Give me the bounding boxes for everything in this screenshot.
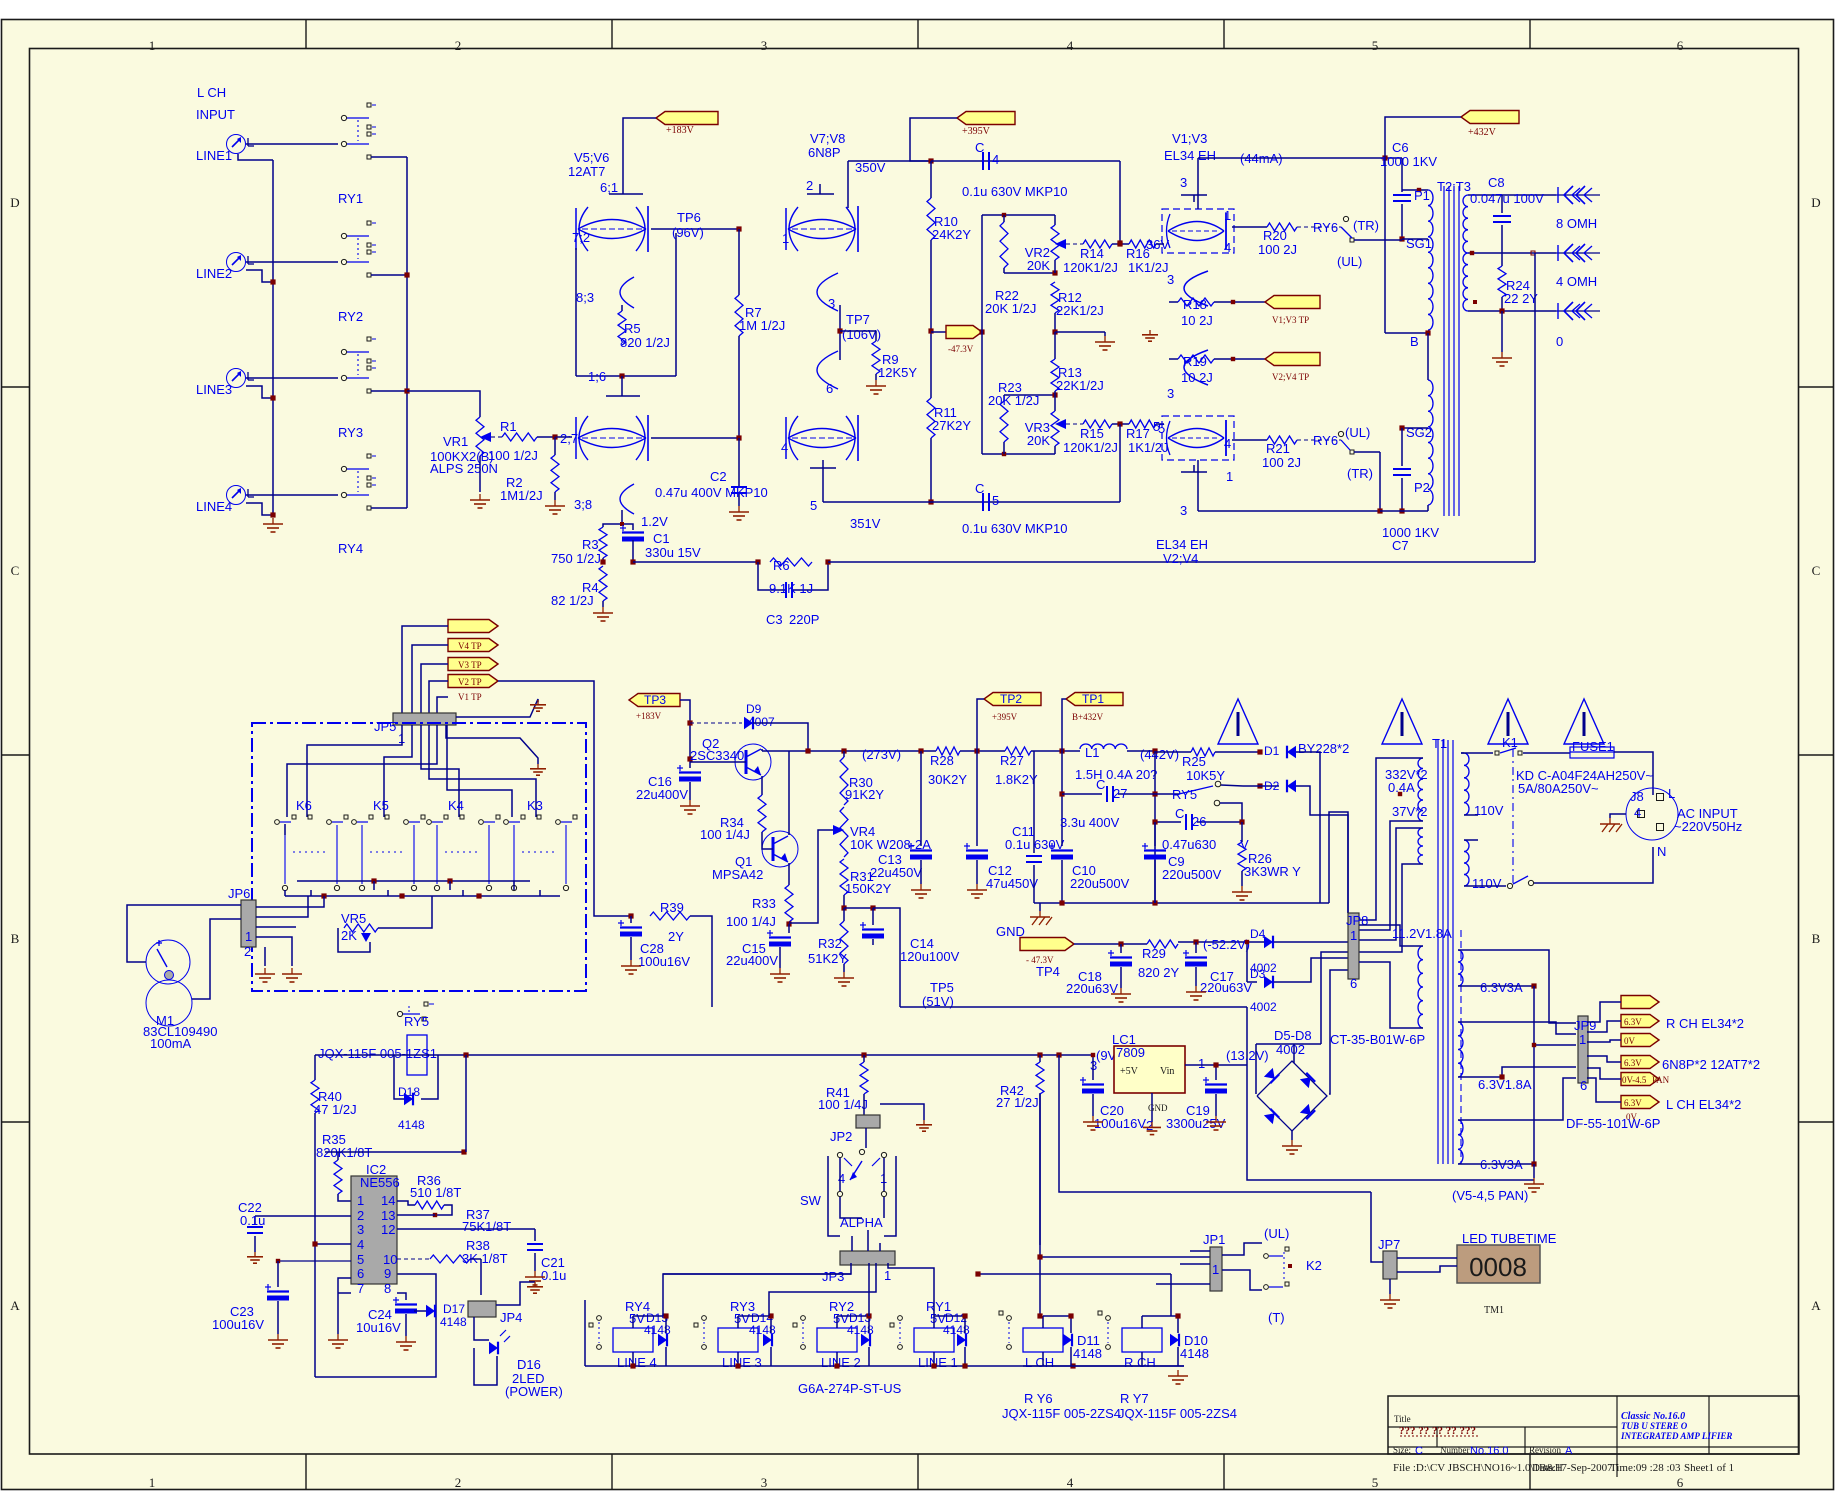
resistor R26 (1238, 822, 1301, 879)
cathode arc V7 pin 6 (817, 351, 838, 396)
svg-text:47 1/2J: 47 1/2J (314, 1102, 357, 1117)
diode D17 (414, 1302, 467, 1329)
svg-text:~220V50Hz: ~220V50Hz (1674, 819, 1742, 834)
wire V5a grid bar down (575, 248, 577, 376)
svg-text:(UL): (UL) (1337, 254, 1362, 269)
ground C20 (1083, 1094, 1103, 1130)
svg-text:12: 12 (381, 1222, 395, 1237)
svg-text:4: 4 (357, 1237, 364, 1252)
svg-text:6.3V: 6.3V (1624, 1017, 1642, 1027)
relay contact K2 (1264, 1247, 1322, 1289)
wire C4 to R14 node (1117, 161, 1122, 246)
triode V5b (576, 415, 648, 461)
wire 9V to bridge drop (1059, 1055, 1371, 1192)
svg-text:1000 1KV: 1000 1KV (1382, 525, 1439, 540)
resistor R21 (1232, 436, 1301, 470)
svg-text:1: 1 (1350, 928, 1357, 943)
svg-text:1: 1 (1212, 1262, 1219, 1277)
power port +183V (656, 112, 718, 137)
label pin 1 lower (1226, 469, 1233, 484)
svg-text:4 OMH: 4 OMH (1556, 274, 1597, 289)
wire JP3 drop 1 (663, 1263, 851, 1316)
wire SW frame (828, 1156, 896, 1236)
ground bridge (1282, 1131, 1302, 1154)
svg-text:R27: R27 (1000, 753, 1024, 768)
junction C27 row (1059, 791, 1157, 796)
capacitor C9 (1142, 822, 1222, 882)
svg-text:R5: R5 (624, 321, 641, 336)
svg-text:FUSE1: FUSE1 (1572, 739, 1614, 754)
LED D16 (474, 1317, 563, 1399)
svg-text:T1: T1 (1432, 736, 1447, 751)
svg-text:0V-4.5: 0V-4.5 (1622, 1075, 1647, 1085)
wire J2 to relay RY2 (246, 261, 338, 263)
relay coil RY1 (LINE 1) (890, 1299, 970, 1370)
wire fuse to J8 (1614, 752, 1653, 795)
svg-text:C6: C6 (1392, 140, 1409, 155)
wire SG2 tap (1399, 425, 1428, 430)
svg-text:GND: GND (996, 924, 1025, 939)
power port heater flag3 (1621, 1034, 1659, 1047)
resistor R40 (311, 1055, 357, 1117)
svg-text:P1: P1 (1414, 188, 1430, 203)
svg-text:3: 3 (1167, 272, 1174, 287)
wire input ground bus (272, 160, 274, 516)
svg-text:5: 5 (1153, 419, 1160, 434)
svg-text:24K2Y: 24K2Y (932, 227, 971, 242)
resistor R3 (551, 527, 607, 566)
relay contact RY4 (338, 454, 376, 556)
svg-text:330u 15V: 330u 15V (645, 545, 701, 560)
svg-text:6.3V1.8A: 6.3V1.8A (1478, 1077, 1532, 1092)
wire LC1 out (1185, 1048, 1269, 1068)
rotary switch SW (800, 1149, 887, 1230)
wire TP6 branch (675, 233, 677, 376)
fuse FUSE1 (1570, 739, 1614, 758)
svg-text:4148: 4148 (440, 1315, 467, 1329)
label DF-55-101W-6P (1566, 1116, 1660, 1131)
wire TP5 51V run (900, 1006, 1247, 1008)
svg-text:1: 1 (1198, 1056, 1205, 1071)
svg-text:6N8P*2 12AT7*2: 6N8P*2 12AT7*2 (1662, 1057, 1760, 1072)
svg-text:A: A (1565, 1445, 1573, 1457)
svg-text:6: 6 (1580, 1078, 1587, 1093)
svg-text:J8: J8 (1630, 789, 1644, 804)
svg-text:100 1/4J: 100 1/4J (818, 1097, 868, 1112)
svg-text:0.47u 400V MKP10: 0.47u 400V MKP10 (655, 485, 768, 500)
wire C9 bottom (1154, 860, 1156, 903)
transformer secondary winding (1463, 195, 1468, 311)
ground C2 (729, 494, 749, 520)
label (9V) (1096, 1048, 1121, 1063)
ground C15 (770, 947, 790, 982)
connector JP8 (1346, 913, 1368, 991)
svg-text:100 1/2J: 100 1/2J (488, 448, 538, 463)
svg-text:DF-55-101W-6P: DF-55-101W-6P (1566, 1116, 1660, 1131)
junction R15 node (1117, 421, 1122, 426)
svg-text:C: C (1175, 806, 1184, 821)
ground ladder mid (1095, 336, 1115, 350)
svg-text:LINE 3: LINE 3 (722, 1355, 762, 1370)
svg-text:D: D (10, 195, 19, 210)
wire heater center bus (1533, 986, 1535, 1164)
ground JP6 a (255, 947, 275, 982)
wire bus R10-R11 (930, 240, 932, 398)
wire primary lower ends (1427, 333, 1429, 511)
selection dash-dot box (252, 723, 586, 991)
capacitor C4 (975, 140, 999, 170)
transformer T1 secondary 37V (1392, 804, 1427, 864)
wire J3 ground stub (246, 386, 273, 398)
wire TP5 drop to gnd run (1247, 1007, 1534, 1180)
svg-text:10K5Y: 10K5Y (1186, 768, 1225, 783)
svg-text:37V*2: 37V*2 (1392, 804, 1427, 819)
power port TP3 (629, 693, 680, 721)
svg-text:+183V: +183V (636, 711, 662, 721)
svg-text:MPSA42: MPSA42 (712, 867, 763, 882)
transformer heater winding 11.2V (1418, 946, 1423, 1028)
wire JP1 left feeds (1156, 1251, 1210, 1284)
svg-text:JP5: JP5 (374, 719, 396, 734)
svg-text:EL34 EH: EL34 EH (1164, 148, 1216, 163)
svg-text:R21: R21 (1266, 441, 1290, 456)
svg-text:C2: C2 (710, 469, 727, 484)
svg-text:B: B (1812, 931, 1821, 946)
resistor R16 (1112, 240, 1168, 275)
capacitor C10 (1049, 751, 1130, 903)
wire pin13 (397, 1214, 435, 1216)
resistor R11 (927, 398, 971, 438)
svg-text:C: C (975, 140, 984, 155)
capacitor C19 (1166, 1065, 1227, 1131)
wire J4 to relay RY4 (246, 494, 338, 496)
wire R15 node to C5 rail (1119, 424, 1121, 502)
wire rail drop from 9V (465, 1055, 467, 1152)
ground speaker 0 (1492, 352, 1512, 366)
capacitor C6 (1380, 140, 1437, 201)
ground C13 (911, 860, 931, 898)
svg-text:27: 27 (1113, 786, 1127, 801)
power port heater flag5 (0V-4.5PAN) (1621, 1073, 1670, 1086)
wire R17 to V2 grid (1156, 423, 1164, 425)
power port V4 TP (448, 639, 498, 652)
diode D2 (1243, 779, 1296, 793)
label pin 4 (781, 440, 788, 455)
capacitor C8 (1470, 175, 1544, 266)
wire VR1 wiper to R1 (498, 436, 502, 438)
junction ladder left (979, 329, 984, 334)
connector JP7 (1378, 1237, 1400, 1279)
svg-text:C: C (1415, 1445, 1423, 1457)
svg-text:1: 1 (1224, 208, 1231, 223)
svg-text:3K 1/8T: 3K 1/8T (462, 1251, 508, 1266)
svg-text:4: 4 (1224, 240, 1231, 255)
potentiometer VR4 (833, 807, 931, 857)
svg-text:4: 4 (1224, 436, 1231, 451)
wire +395V to rail (910, 118, 957, 161)
svg-text:TP1: TP1 (1082, 692, 1104, 706)
svg-text:D3: D3 (1250, 967, 1266, 981)
ground VR1 (470, 494, 490, 508)
svg-text:3K3WR Y: 3K3WR Y (1244, 864, 1301, 879)
warning triangle 2 (1382, 699, 1422, 744)
label V7;V8 6N8P (808, 131, 845, 160)
resistor R27 (995, 747, 1038, 787)
svg-text:R19: R19 (1183, 354, 1207, 369)
wire primary mid taps (1464, 815, 1478, 840)
svg-text:(V5-4,5 PAN): (V5-4,5 PAN) (1452, 1188, 1528, 1203)
label pin 6;1 (600, 180, 618, 195)
wire primary upper loop (1461, 752, 1464, 754)
ground JP5 right upper (456, 699, 546, 717)
label RY6 RY7 (1024, 1391, 1149, 1406)
resistor R29 (1138, 940, 1180, 980)
svg-text:5: 5 (992, 493, 999, 508)
junction R25 right (1257, 749, 1262, 754)
svg-text:+183V: +183V (666, 125, 695, 136)
label P2 (1414, 480, 1430, 495)
label T2;T3 (1437, 179, 1471, 194)
resistor R24 (1498, 266, 1538, 306)
wire R28-R27 (960, 748, 1005, 753)
svg-text:TUB U STERE O: TUB U STERE O (1621, 1421, 1688, 1431)
svg-text:1K1/2J: 1K1/2J (1128, 260, 1168, 275)
label (-52.2V) (1203, 937, 1250, 952)
relay contact RY6 lower (1297, 425, 1373, 481)
svg-text:V5;V6: V5;V6 (574, 150, 609, 165)
svg-text:3.3u 400V: 3.3u 400V (1060, 815, 1120, 830)
svg-text:1: 1 (884, 1268, 891, 1283)
capacitor C20 (1080, 1053, 1146, 1131)
wire pin2 line (255, 1215, 351, 1217)
svg-text:RY6: RY6 (1313, 220, 1338, 235)
svg-text:120u100V: 120u100V (900, 949, 960, 964)
resistor R34 (700, 795, 766, 842)
power port -47.3V (931, 326, 982, 355)
svg-text:5A/80A250V~: 5A/80A250V~ (1518, 781, 1599, 796)
wire secondary top to J5 (1468, 194, 1556, 196)
wire bus R11 to C5 rail (928, 438, 933, 505)
svg-text:LINE4: LINE4 (196, 499, 232, 514)
resistor R2 (500, 437, 559, 503)
svg-text:V2;V4 TP: V2;V4 TP (1272, 372, 1309, 382)
label fuse rating (1516, 768, 1653, 796)
label (442V) (1140, 747, 1179, 762)
svg-text:VR5: VR5 (341, 911, 366, 926)
svg-text:+432V: +432V (1468, 127, 1497, 138)
svg-text:1M 1/2J: 1M 1/2J (739, 318, 785, 333)
power port heater flag6 (L CH) (1621, 1096, 1741, 1123)
capacitor C26 (1152, 806, 1244, 830)
AC inlet J8 (1626, 786, 1678, 859)
label T1 (1432, 736, 1447, 751)
wire TP2 to rail (977, 699, 984, 751)
potentiometer VR5 (338, 911, 378, 952)
wire JP3 drop 2 (769, 1263, 876, 1316)
svg-text:K5: K5 (373, 798, 389, 813)
wire R35 top rail (325, 1149, 467, 1154)
svg-text:10u16V: 10u16V (356, 1320, 401, 1335)
svg-text:2;7: 2;7 (560, 431, 578, 446)
warning triangle 3 (1488, 699, 1528, 744)
ground small mid (1142, 330, 1158, 341)
label JQX-115F relay types (1002, 1406, 1237, 1421)
wire R38 to JP4 (480, 1259, 482, 1295)
wire JP5 fan 5 (287, 725, 437, 817)
wire 6.3b tap top (1458, 1022, 1576, 1034)
wire JP6 pins right (256, 896, 324, 966)
connector JP4 (468, 1301, 522, 1325)
svg-text:(273V): (273V) (862, 747, 901, 762)
svg-text:8 OMH: 8 OMH (1556, 216, 1597, 231)
svg-text:L CH EL34*2: L CH EL34*2 (1666, 1097, 1741, 1112)
label JQX-115F 005-1ZS1 (318, 1046, 437, 1061)
wire RY4 contact to bus (371, 507, 407, 509)
svg-text:0.47u630: 0.47u630 (1162, 837, 1216, 852)
svg-text:0.047u 100V: 0.047u 100V (1470, 191, 1544, 206)
label (273V) (862, 747, 901, 762)
label pin 3 top (1180, 175, 1187, 190)
warning triangle 4 (1564, 699, 1604, 744)
wire feedback to 4ohm tap (1534, 253, 1536, 562)
wire lower plate rail (1198, 510, 1380, 512)
label B node (1410, 334, 1419, 349)
svg-text:L: L (1668, 786, 1675, 801)
svg-text:22u400V: 22u400V (636, 787, 688, 802)
transformer primary winding upper (1428, 190, 1433, 330)
transformer T1 primary 110V upper (1464, 753, 1504, 818)
wire LCH RCH bottom (1023, 1366, 1188, 1384)
wire K cluster stubs (311, 881, 540, 896)
resistor R41 (818, 1055, 868, 1112)
ground C12 (967, 860, 987, 898)
transistor Q1 (712, 831, 798, 882)
svg-text:V7;V8: V7;V8 (810, 131, 845, 146)
label C7 value (1382, 525, 1439, 553)
speaker jack J7 (1556, 302, 1600, 349)
svg-text:N: N (1657, 844, 1666, 859)
label G6A-274P-ST-US (798, 1381, 902, 1396)
wire RY2 contact to bus (371, 274, 407, 276)
svg-text:(TR): (TR) (1353, 218, 1379, 233)
svg-text:R Y7: R Y7 (1120, 1391, 1149, 1406)
svg-text:2: 2 (244, 944, 251, 959)
junction LINE2 bus (270, 279, 275, 284)
svg-text:NE556: NE556 (360, 1175, 400, 1190)
svg-text:14: 14 (381, 1193, 395, 1208)
relay contact K3 (504, 798, 577, 891)
label 351V (850, 516, 881, 531)
svg-text:22u450V: 22u450V (870, 865, 922, 880)
power port heater flag2 (R CH) (1621, 1015, 1744, 1032)
svg-text:No.16.0: No.16.0 (1470, 1445, 1509, 1457)
label SG2 (1406, 425, 1432, 440)
capacitor C7 (1393, 428, 1411, 514)
wire R16 to V1 grid (1117, 241, 1164, 246)
svg-text:3: 3 (828, 296, 835, 311)
svg-text:9: 9 (384, 1266, 391, 1281)
ground C17 (1186, 967, 1206, 1000)
svg-text:B: B (1410, 334, 1419, 349)
wire gnd rail (1034, 900, 1329, 905)
wire M1 to JP6 b (192, 919, 241, 999)
resistor R19 (1178, 354, 1214, 385)
junction relay bus VR1 tap (404, 388, 409, 393)
wire JP5 fan 3 (421, 725, 459, 817)
svg-text:LINE 1: LINE 1 (918, 1355, 958, 1370)
svg-text:V1;V3: V1;V3 (1172, 131, 1207, 146)
svg-text:820 2Y: 820 2Y (1138, 965, 1180, 980)
svg-text:1: 1 (1226, 469, 1233, 484)
label VR1 (430, 434, 498, 476)
connector JP3 (822, 1251, 895, 1284)
svg-text:0.1u: 0.1u (240, 1213, 265, 1228)
resistor R12 (1051, 282, 1104, 318)
svg-text:K1: K1 (1502, 735, 1518, 750)
wire SG1 tap (1402, 238, 1428, 240)
junction secondary small (1473, 300, 1477, 304)
svg-text:JP1: JP1 (1203, 1232, 1225, 1247)
svg-text:R14: R14 (1080, 246, 1104, 261)
wire C14 to TP5 (873, 908, 900, 1007)
svg-text:TM1: TM1 (1484, 1305, 1504, 1316)
svg-text:1;6: 1;6 (588, 369, 606, 384)
junction feedback right (825, 559, 830, 564)
transformer heater winding 6.3V3A b (1458, 1120, 1523, 1172)
wire V1 plate rail 44mA (1198, 158, 1402, 209)
svg-text:L CH: L CH (197, 85, 226, 100)
label pin 7;2 (572, 230, 590, 245)
diode D9 (690, 702, 775, 729)
svg-text:D18: D18 (398, 1085, 420, 1099)
transformer core (1444, 186, 1459, 516)
svg-text:20K 1/2J: 20K 1/2J (985, 301, 1036, 316)
svg-text:R CH EL34*2: R CH EL34*2 (1666, 1016, 1744, 1031)
svg-text:K3: K3 (527, 798, 543, 813)
svg-text:4148: 4148 (749, 1323, 776, 1337)
wire R31 to C14 rail (844, 905, 876, 910)
relay contact K6 (275, 798, 348, 891)
svg-text:TP2: TP2 (1000, 692, 1022, 706)
resistor R35 (316, 1132, 372, 1201)
svg-text:2: 2 (455, 38, 462, 53)
connector J1 (LINE1 jack) (196, 135, 254, 164)
svg-text:(UL): (UL) (1345, 425, 1370, 440)
wire ladder bottom (982, 452, 1055, 456)
wire R23-VR3 row (1004, 392, 1058, 397)
svg-text:100 1/4J: 100 1/4J (726, 914, 776, 929)
wire R1 node to V5b grid (555, 436, 572, 438)
wire TP3 to Q2 node (680, 700, 693, 762)
svg-text:TP6: TP6 (677, 210, 701, 225)
svg-text:100 1/4J: 100 1/4J (700, 827, 750, 842)
wire D3 to JP8 (1274, 958, 1348, 982)
svg-text:4148: 4148 (847, 1323, 874, 1337)
wire J4 ground stub (246, 503, 273, 515)
ground JP5 right lower (446, 725, 546, 775)
label V5;V6 12AT7 (568, 150, 609, 179)
svg-text:6.3V: 6.3V (1624, 1098, 1642, 1108)
label pin 4 lower (1224, 436, 1231, 451)
svg-text:6: 6 (1677, 38, 1684, 53)
label 3.3u 400V (1060, 815, 1120, 830)
resistor R37 wire pin12 (397, 1207, 535, 1234)
svg-text:Vin: Vin (1160, 1066, 1174, 1077)
svg-text:JQX-115F 005-1ZS1: JQX-115F 005-1ZS1 (318, 1046, 437, 1061)
svg-text:R18: R18 (1183, 297, 1207, 312)
wire C6 to SG1 node (1399, 204, 1404, 242)
svg-text:100 2J: 100 2J (1262, 455, 1301, 470)
